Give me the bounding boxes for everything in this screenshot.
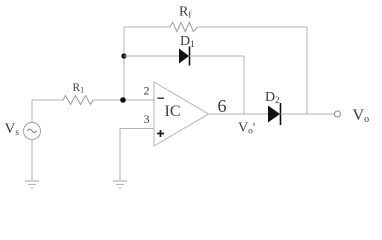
wire op-amp output to D2 xyxy=(209,113,269,115)
wire source top to R1 row xyxy=(32,100,63,123)
wire D1 row right xyxy=(190,55,245,57)
diode D2 xyxy=(268,103,281,125)
svg-text:IC: IC xyxy=(165,103,181,120)
ground (source) xyxy=(25,181,39,188)
sine symbol xyxy=(27,129,36,132)
svg-text:Vs: Vs xyxy=(5,121,20,137)
svg-text:2: 2 xyxy=(144,84,150,98)
svg-text:D2: D2 xyxy=(265,90,280,105)
resistor Rf xyxy=(170,22,198,31)
svg-text:Rf: Rf xyxy=(179,5,191,20)
wire source bottom to ground xyxy=(31,140,33,182)
voltage source Vs circle xyxy=(24,123,41,140)
plus sign xyxy=(157,130,164,137)
ground (pin 3) xyxy=(113,181,127,188)
wire left vertical (node A up to feedback) xyxy=(123,27,125,100)
wire top feedback left segment xyxy=(124,26,170,28)
wire D1 row left xyxy=(124,55,179,57)
svg-text:3: 3 xyxy=(144,112,150,126)
wire top feedback right segment xyxy=(198,26,308,28)
svg-text:Vo': Vo' xyxy=(238,120,255,137)
wire D2 to output terminal xyxy=(281,113,335,115)
wire D1 vertical down to output xyxy=(243,56,245,114)
svg-text:Vo: Vo xyxy=(353,107,370,125)
svg-text:R1: R1 xyxy=(73,82,85,95)
node junction D1 branch xyxy=(121,53,126,58)
minus sign xyxy=(158,97,165,99)
wire R1 to op-amp pin 2 xyxy=(93,99,154,101)
wire pin 3 to ground corner xyxy=(120,129,154,182)
op-amp IC triangle xyxy=(154,82,209,146)
svg-text:D1: D1 xyxy=(180,34,195,49)
svg-text:6: 6 xyxy=(218,96,227,116)
node A junction xyxy=(120,97,126,103)
resistor R1 xyxy=(63,96,93,105)
diode D1 xyxy=(179,47,190,66)
wire right vertical (Rf feedback down to output) xyxy=(306,27,308,114)
terminal Vo xyxy=(335,111,341,117)
